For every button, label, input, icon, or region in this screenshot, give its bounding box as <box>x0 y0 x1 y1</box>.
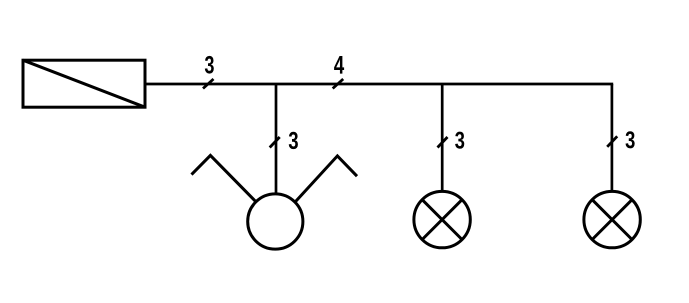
conductor tick 3-wire on drop 1 <box>270 137 280 148</box>
label 3 conductors drop 3 <box>626 131 635 148</box>
distribution board DB1 <box>23 60 145 107</box>
wire drop to lamp E2 <box>611 84 614 191</box>
conductor tick 4-wire on feeder <box>333 79 344 89</box>
outlet X1 right arm <box>296 156 357 202</box>
outlet X1 left arm <box>192 155 256 201</box>
wire drop to lamp E1 <box>441 84 444 191</box>
lamp E1 cross <box>422 200 462 240</box>
label 3 conductors feeder <box>205 56 214 74</box>
outlet X1 circle <box>248 194 303 249</box>
wire main feeder <box>147 83 614 86</box>
label 3 conductors drop 1 <box>289 132 298 149</box>
conductor tick 3-wire on drop 3 <box>607 136 617 147</box>
conductor tick 3-wire on drop 2 <box>438 137 448 148</box>
lamp E2 cross <box>592 200 632 240</box>
label 4 conductors feeder <box>334 56 344 74</box>
lamp E1 circle <box>414 191 470 247</box>
wire drop to outlet X1 <box>275 84 278 194</box>
lamp E2 circle <box>584 191 640 247</box>
conductor tick 3-wire on feeder <box>203 79 214 89</box>
label 3 conductors drop 2 <box>455 132 464 149</box>
